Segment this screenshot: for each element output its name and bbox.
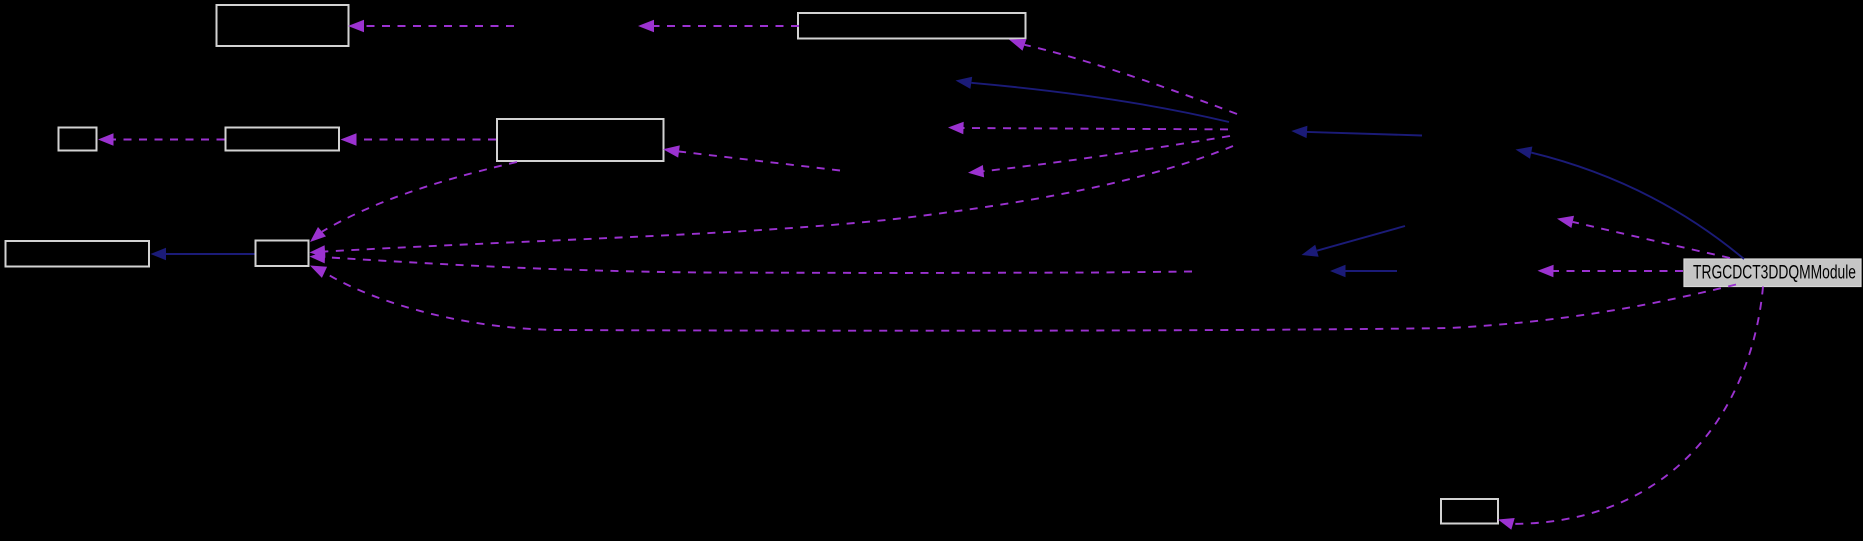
node box E (small hub) — [256, 241, 309, 267]
dashed edge central to box H (big arc) — [1498, 287, 1763, 530]
dashed edge central to box E (bottom) — [310, 266, 1736, 331]
node box G (2-line) — [497, 119, 664, 161]
blue edge N9 to invisible N10 — [1302, 226, 1406, 257]
svg-text:TRGCDCT3DDQMModule: TRGCDCT3DDQMModule — [1693, 262, 1856, 283]
dashed edge F to invisible node N1 — [638, 20, 799, 32]
node box F (top, wide) — [798, 13, 1026, 39]
dashed edge central to invisible N11 — [1538, 265, 1684, 277]
blue edge N11 to invisible N12 — [1330, 265, 1397, 277]
dashed edge N12 to box E — [310, 251, 1193, 273]
dashed edge C to box B — [98, 133, 225, 145]
dashed edge X1 to invisible N8 — [968, 136, 1230, 177]
blue edge E to box D — [151, 248, 255, 260]
node box A (top-left, 2-line) — [217, 5, 349, 46]
dashed edge X1 to box F — [1009, 39, 1237, 114]
dashed edge N1 to box A — [348, 20, 514, 32]
node box C (mid-left) — [226, 128, 340, 151]
node box B (small left) — [59, 128, 97, 151]
blue edge central to invisible N7 — [1516, 147, 1745, 260]
central node TRGCDCT3DDQMModule — [1684, 259, 1861, 287]
dashed edge central to invisible N9 — [1557, 216, 1730, 258]
dashed edge G to box E — [310, 162, 517, 242]
dashed long edge X1 to box E — [310, 146, 1234, 258]
blue edge X1 to invisible N2 — [956, 77, 1230, 122]
dashed edge X1 to invisible N3 — [948, 122, 1228, 134]
node box D (bottom-left wide) — [6, 241, 150, 267]
dashed edge N8 to box G — [663, 145, 840, 170]
node box H (bottom-right) — [1441, 499, 1498, 524]
dashed edge G to box C — [341, 133, 497, 145]
blue edge N7 to invisible X1 — [1291, 126, 1422, 138]
